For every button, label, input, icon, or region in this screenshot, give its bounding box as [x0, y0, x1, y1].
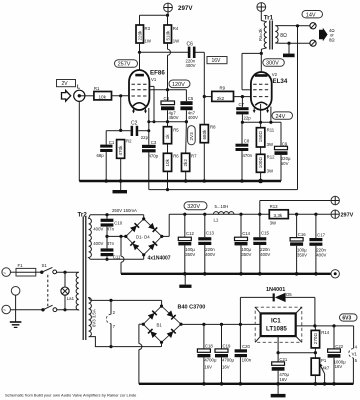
wire triode strap anode-g2	[242, 52, 263, 90]
svg-text:10k: 10k	[165, 158, 170, 166]
svg-text:C19: C19	[223, 343, 231, 348]
svg-text:350V: 350V	[185, 252, 195, 257]
svg-text:100Ω: 100Ω	[258, 157, 263, 169]
svg-text:C18: C18	[205, 343, 213, 348]
tube EF86 V1	[129, 70, 165, 111]
earth terminal	[10, 287, 22, 328]
svg-text:S1: S1	[42, 263, 48, 268]
svg-text:V1: V1	[352, 352, 358, 357]
svg-text:R2: R2	[126, 139, 132, 144]
wire bridge minus down with hop	[121, 236, 124, 273]
capacitor C21	[272, 353, 290, 386]
svg-text:R5: R5	[173, 128, 179, 133]
mains terminal L	[2, 268, 16, 277]
resistor R1	[94, 86, 129, 100]
bridge rectifier D1-D4	[124, 217, 163, 256]
terminal 0V	[331, 270, 339, 278]
svg-text:R6: R6	[173, 154, 179, 159]
svg-text:R3: R3	[145, 26, 151, 31]
label 6V3	[340, 314, 358, 322]
capacitor C14	[235, 214, 252, 275]
svg-text:C6: C6	[187, 42, 194, 48]
wire 297V rail	[140, 12, 170, 25]
svg-text:150Ω: 150Ω	[258, 131, 263, 143]
svg-text:47n: 47n	[107, 227, 115, 232]
capacitor C18	[197, 324, 217, 385]
svg-text:450V: 450V	[169, 115, 179, 120]
capacitor C13	[198, 214, 215, 275]
svg-text:50V: 50V	[281, 161, 289, 166]
svg-text:16V: 16V	[335, 364, 343, 369]
svg-text:2k2: 2k2	[217, 96, 225, 101]
diode D5 1N4001	[240, 287, 315, 326]
rail 0V bottom	[139, 383, 354, 385]
supply terminal 320V out	[331, 196, 339, 204]
capacitor C17	[309, 214, 326, 275]
fuse F1	[16, 263, 42, 276]
svg-text:2V3: 2V3	[189, 132, 194, 141]
svg-text:16V: 16V	[204, 365, 212, 370]
capacitor C10	[93, 215, 122, 238]
label 320V	[184, 202, 207, 210]
svg-text:C9: C9	[282, 141, 288, 146]
mains terminal N	[2, 305, 43, 314]
svg-text:C17: C17	[317, 233, 325, 238]
capacitor C9	[275, 122, 291, 181]
wire secondary bottom to bridge	[90, 255, 143, 259]
capacitor C6	[186, 42, 205, 97]
heater tap V2 pins 2-7	[106, 300, 115, 348]
ground rail middle	[121, 273, 331, 275]
resistor R12	[256, 147, 275, 183]
svg-text:4x1N4007: 4x1N4007	[148, 256, 171, 262]
wire ADJ	[277, 336, 318, 354]
svg-text:3,3k: 3,3k	[274, 213, 283, 218]
tube EL34 V2	[251, 72, 288, 110]
svg-text:C12: C12	[186, 231, 194, 236]
label 2V input	[57, 80, 76, 88]
svg-text:400V: 400V	[260, 252, 270, 257]
svg-text:297V: 297V	[178, 5, 193, 12]
svg-text:4700μ: 4700μ	[204, 358, 217, 363]
heater pins EL34	[253, 108, 269, 113]
capacitor C2	[121, 120, 149, 140]
svg-text:47n: 47n	[107, 241, 115, 246]
wire 320V tap	[260, 201, 331, 215]
svg-text:2V: 2V	[62, 81, 69, 87]
svg-text:V2: V2	[272, 72, 278, 77]
svg-text:R1: R1	[94, 86, 100, 91]
capacitor C15	[253, 214, 270, 275]
resistor R4	[164, 25, 180, 44]
ground chassis top	[113, 181, 128, 193]
svg-text:R9: R9	[220, 86, 226, 91]
svg-text:1N4001: 1N4001	[266, 287, 285, 293]
svg-text:C2: C2	[131, 120, 138, 126]
svg-text:4700μ: 4700μ	[222, 358, 235, 363]
svg-text:Schematic from Build your own: Schematic from Build your own Audio Valv…	[5, 393, 137, 398]
svg-text:R12: R12	[267, 154, 275, 159]
svg-text:B40 C3700: B40 C3700	[178, 305, 206, 311]
svg-text:D5: D5	[286, 292, 292, 297]
capacitor C12	[178, 214, 195, 275]
resistor R5	[163, 122, 179, 144]
lamp La1	[61, 272, 75, 311]
capacitor C5	[180, 90, 198, 122]
resistor R13	[269, 204, 288, 226]
svg-text:8Ω: 8Ω	[280, 33, 287, 39]
cathode line V1	[147, 108, 188, 145]
svg-text:300V: 300V	[266, 61, 279, 67]
svg-text:5...10H: 5...10H	[215, 204, 229, 209]
svg-text:510k: 510k	[165, 30, 170, 41]
svg-text:C8: C8	[244, 139, 250, 144]
label 120V	[169, 80, 190, 88]
switch S1 pole b	[41, 305, 79, 311]
svg-text:C5: C5	[188, 96, 194, 101]
svg-text:680k: 680k	[202, 129, 207, 140]
capacitor C20	[235, 324, 252, 385]
svg-text:C7: C7	[239, 102, 245, 107]
output terminal top	[310, 23, 316, 29]
svg-text:8Ω: 8Ω	[329, 37, 335, 42]
supply terminal 297V	[164, 3, 194, 12]
wire R4 to g2 with hop	[168, 43, 171, 90]
resistor R8	[200, 95, 216, 183]
resistor R7	[182, 122, 198, 183]
transformer Tr2 heater winding	[89, 298, 97, 337]
svg-text:16V: 16V	[212, 58, 222, 64]
svg-text:C21: C21	[279, 357, 287, 362]
svg-text:6V3 3,5A: 6V3 3,5A	[92, 309, 97, 327]
label 257V	[115, 60, 138, 68]
svg-text:C14: C14	[242, 231, 250, 236]
potentiometer P1	[311, 353, 330, 386]
svg-text:~: ~	[3, 308, 6, 314]
transformer Tr2 primary	[76, 272, 79, 310]
wire secondary top	[280, 24, 310, 27]
svg-text:F1: F1	[18, 263, 24, 268]
svg-text:3W: 3W	[267, 142, 274, 147]
svg-text:24V: 24V	[276, 114, 286, 120]
svg-text:6V3: 6V3	[342, 316, 351, 322]
regulator IC1 LT1085	[255, 307, 302, 342]
svg-text:68p: 68p	[97, 153, 105, 158]
supply terminal 297V out	[331, 210, 354, 219]
speaker arrow	[319, 28, 335, 43]
svg-text:22p: 22p	[141, 135, 149, 140]
output terminal bottom	[310, 40, 316, 46]
svg-text:V1: V1	[151, 77, 157, 82]
svg-text:400V: 400V	[188, 115, 198, 120]
label 300V	[263, 59, 285, 67]
resistor R9	[204, 86, 251, 102]
resistor R2	[117, 139, 133, 183]
svg-text:LT1085: LT1085	[266, 325, 287, 332]
capacitor C3	[142, 131, 159, 190]
svg-text:C4: C4	[164, 96, 170, 101]
wire g3 V1	[149, 86, 155, 123]
HT rail	[169, 213, 331, 216]
resistor R6	[163, 144, 179, 190]
wire secondary bottom	[280, 42, 310, 45]
svg-text:C22: C22	[335, 344, 343, 349]
svg-text:257V: 257V	[118, 62, 131, 68]
cathode line V2	[241, 104, 281, 124]
svg-text:10k: 10k	[99, 95, 107, 100]
svg-text:400V: 400V	[93, 241, 103, 246]
label 14V	[302, 11, 323, 19]
svg-text:1W: 1W	[145, 39, 152, 44]
svg-text:C11: C11	[113, 255, 121, 260]
ground chassis bottom	[271, 384, 286, 398]
wire g2 line V1	[149, 88, 186, 91]
supply terminal Tr1	[257, 3, 266, 21]
svg-text:Ra=3k: Ra=3k	[258, 28, 263, 41]
transformer Tr1	[258, 15, 280, 54]
label 16V	[207, 57, 227, 65]
svg-text:La1: La1	[67, 296, 75, 301]
capacitor C22	[328, 326, 347, 386]
svg-text:C3: C3	[151, 140, 157, 145]
svg-text:3W: 3W	[270, 221, 277, 226]
svg-text:22p: 22p	[244, 116, 252, 121]
label 24V	[272, 112, 293, 120]
svg-text:Tr1: Tr1	[264, 15, 274, 22]
rail plus 6V	[181, 323, 261, 326]
resistor R14	[311, 326, 330, 353]
svg-text:C10: C10	[114, 221, 122, 226]
capacitor C16	[290, 214, 307, 275]
wire C1 branch	[106, 131, 121, 145]
svg-text:R8: R8	[210, 125, 216, 130]
svg-text:C20: C20	[242, 344, 250, 349]
svg-text:R13: R13	[270, 204, 278, 209]
ground bus top	[79, 180, 281, 182]
svg-text:P1: P1	[321, 358, 327, 363]
input arrow	[61, 91, 70, 102]
svg-text:100n: 100n	[242, 358, 252, 363]
svg-text:C1: C1	[109, 140, 115, 145]
svg-text:~: ~	[3, 271, 6, 277]
resistor R3	[136, 25, 152, 52]
svg-text:470n: 470n	[243, 153, 253, 158]
svg-text:297V: 297V	[341, 213, 354, 219]
svg-text:16V: 16V	[279, 377, 287, 382]
switch S1 pole a	[40, 263, 79, 274]
svg-text:120V: 120V	[172, 82, 185, 88]
svg-text:EF86: EF86	[150, 70, 165, 77]
heater pins EF86	[132, 109, 147, 114]
wire heater bottom	[91, 337, 162, 347]
svg-text:14V: 14V	[306, 12, 316, 18]
ground Tr1	[283, 43, 295, 57]
wire heater top	[90, 299, 161, 306]
svg-text:R14: R14	[321, 330, 329, 335]
svg-text:400V: 400V	[316, 252, 326, 257]
svg-text:R7: R7	[191, 154, 197, 159]
svg-text:1k: 1k	[165, 134, 170, 140]
svg-text:C15: C15	[261, 230, 269, 235]
svg-text:1W: 1W	[173, 39, 180, 44]
svg-text:350V: 350V	[241, 252, 251, 257]
node anode EF86	[138, 51, 188, 70]
capacitor C1	[97, 140, 115, 183]
capacitor C4	[161, 90, 179, 122]
resistor R11	[256, 122, 274, 147]
svg-text:220k: 220k	[137, 30, 142, 41]
svg-text:350V: 350V	[297, 252, 307, 257]
svg-text:R4: R4	[173, 26, 179, 31]
capacitor C7	[236, 97, 251, 123]
svg-text:470k: 470k	[118, 145, 123, 156]
capacitor C19	[215, 324, 235, 385]
svg-text:320V: 320V	[187, 204, 200, 210]
wire C10/C11 midpoint to bridge left	[107, 235, 126, 238]
svg-text:400V: 400V	[93, 227, 103, 232]
capacitor C8	[236, 122, 253, 183]
svg-text:D1- D4: D1- D4	[136, 235, 150, 240]
wire regulator output	[296, 324, 354, 327]
svg-text:C13: C13	[206, 230, 214, 235]
svg-text:2k2: 2k2	[183, 159, 188, 167]
svg-text:C16: C16	[298, 232, 306, 237]
bridge rectifier B1	[142, 305, 183, 344]
switch link dashed	[47, 275, 49, 306]
wire bridge plus to rail	[162, 214, 169, 236]
heater tap V1 pins 4-5	[349, 326, 358, 384]
wire secondary top to bridge	[90, 213, 144, 219]
label 2V3	[188, 126, 196, 145]
svg-text:270Ω: 270Ω	[313, 333, 318, 345]
svg-text:IC1: IC1	[271, 317, 281, 324]
transformer Tr2	[78, 211, 92, 340]
node A grid V1	[119, 94, 122, 132]
svg-text:250V 150mA: 250V 150mA	[112, 208, 137, 213]
svg-text:400V: 400V	[186, 63, 196, 68]
svg-text:R11: R11	[267, 128, 275, 133]
wire bridge minus with hop	[139, 324, 143, 384]
svg-text:3W: 3W	[267, 169, 274, 174]
svg-text:400V: 400V	[205, 252, 215, 257]
ground chassis middle	[179, 274, 191, 288]
wire NFB line	[149, 26, 298, 191]
svg-text:L1: L1	[214, 218, 219, 223]
inductor L1	[214, 204, 234, 223]
svg-text:B1: B1	[157, 322, 163, 327]
svg-text:16V: 16V	[222, 365, 230, 370]
svg-text:470p: 470p	[149, 154, 159, 159]
svg-text:EL34: EL34	[273, 78, 288, 85]
input jack	[74, 90, 94, 181]
svg-text:4k7: 4k7	[322, 365, 330, 370]
capacitor C11	[93, 236, 121, 261]
